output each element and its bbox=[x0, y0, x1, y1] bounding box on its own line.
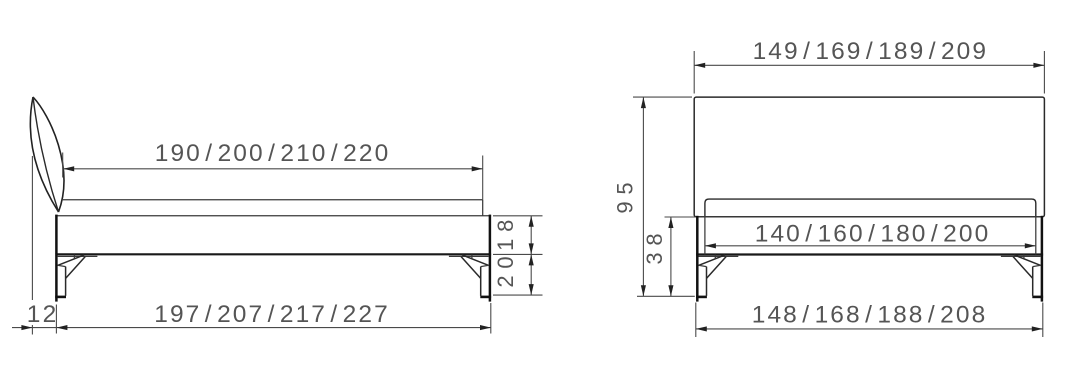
dimension line 20 bbox=[530, 254, 532, 295]
leg top slant bbox=[699, 265, 707, 266]
dimension line 95 bbox=[642, 97, 644, 296]
side view: headboard leaf midrib bbox=[33, 97, 59, 212]
extension line left leg lower bbox=[695, 303, 697, 338]
extension line headboard front lower bbox=[55, 305, 57, 334]
leg brace tick bbox=[73, 255, 75, 259]
front view: frame left cap inner edge bbox=[704, 217, 706, 255]
leg brace diagonal outer bbox=[699, 255, 726, 266]
front view: frame right outer edge bbox=[1041, 216, 1044, 255]
dimension line 148/168/188/208 bbox=[696, 328, 1043, 330]
svg-text:148/168/188/208: 148/168/188/208 bbox=[752, 301, 985, 328]
extension line frame top left bbox=[665, 216, 696, 218]
leg ledge line bbox=[699, 255, 739, 257]
leg foot bar bbox=[55, 296, 66, 299]
extension line headboard back lower bbox=[31, 325, 33, 335]
leg brace diagonal inner bbox=[461, 257, 481, 279]
extension line floor front view bbox=[637, 295, 695, 297]
leg brace diagonal inner bbox=[707, 257, 727, 279]
leg inner edge bbox=[65, 267, 67, 296]
dimension line 38 bbox=[670, 217, 672, 296]
front view: frame top line bbox=[697, 216, 1042, 218]
svg-text:149/169/189/209: 149/169/189/209 bbox=[753, 38, 986, 65]
extension line headboard left top bbox=[693, 51, 695, 94]
dimension line 149/169/189/209 bbox=[694, 64, 1044, 66]
dimension line 190/200/210/220 bbox=[63, 168, 483, 170]
extension line frame top right bbox=[493, 215, 543, 217]
leg top slant bbox=[58, 265, 66, 266]
extension line right leg lower bbox=[1042, 303, 1044, 338]
leg inner edge bbox=[706, 267, 708, 296]
extension line headboard back upper bbox=[31, 156, 33, 300]
side view: frame left edge bbox=[55, 215, 58, 255]
leg ledge line bbox=[449, 255, 489, 257]
extension line left (headboard face) bbox=[62, 153, 64, 178]
leg brace tick bbox=[471, 255, 473, 259]
svg-text:197/207/217/227: 197/207/217/227 bbox=[154, 301, 387, 328]
svg-text:140/160/180/200: 140/160/180/200 bbox=[755, 221, 988, 248]
side view: mattress platform front edge bbox=[482, 200, 484, 216]
leg outer edge bbox=[489, 254, 492, 301]
front view: frame bottom line bbox=[696, 253, 1043, 255]
side view: frame right edge bbox=[489, 215, 492, 255]
leg outer edge bbox=[696, 255, 699, 302]
leg foot bar bbox=[480, 296, 491, 299]
leg outer edge bbox=[1041, 255, 1044, 302]
leg brace diagonal outer bbox=[462, 255, 489, 266]
extension line floor right bbox=[493, 294, 543, 296]
extension line headboard right top bbox=[1043, 51, 1045, 94]
leg ledge line bbox=[1001, 255, 1041, 257]
extension line frame bottom right bbox=[493, 253, 543, 255]
side view: headboard leaf outline left curve bbox=[30, 97, 58, 212]
leg inner edge bbox=[480, 267, 482, 296]
leg inner edge bbox=[1032, 267, 1034, 296]
dimension line 12 and 197/207/217/227 bbox=[12, 327, 491, 329]
leg brace tick bbox=[714, 255, 716, 259]
side view: mattress platform top line bbox=[62, 199, 483, 201]
leg ledge line bbox=[58, 255, 98, 257]
front view: headboard panel bbox=[694, 97, 1044, 217]
leg brace diagonal outer bbox=[58, 255, 85, 266]
leg top slant bbox=[481, 265, 489, 266]
extension line headboard top left bbox=[633, 96, 692, 98]
leg brace diagonal outer bbox=[1014, 255, 1041, 266]
side view: frame bottom line bbox=[55, 253, 491, 255]
leg brace diagonal inner bbox=[66, 257, 86, 279]
side view: frame top line bbox=[55, 215, 491, 217]
leg outer edge bbox=[55, 254, 58, 301]
dimension line 140/160/180/200 bbox=[705, 245, 1036, 247]
leg foot bar bbox=[696, 296, 707, 299]
extension line bed end lower bbox=[490, 303, 492, 334]
leg brace tick bbox=[1023, 255, 1025, 259]
front view: frame right cap inner edge bbox=[1035, 217, 1037, 255]
extension line right (platform end) bbox=[482, 156, 484, 200]
side view: headboard leaf outline right curve bbox=[33, 97, 64, 212]
leg foot bar bbox=[1032, 296, 1043, 299]
dimension line 18 bbox=[530, 216, 532, 255]
front view: frame left outer edge bbox=[696, 216, 699, 255]
front view: mattress platform bbox=[705, 199, 1036, 217]
svg-text:190/200/210/220: 190/200/210/220 bbox=[155, 140, 388, 167]
leg brace diagonal inner bbox=[1013, 257, 1033, 279]
leg top slant bbox=[1033, 265, 1041, 266]
